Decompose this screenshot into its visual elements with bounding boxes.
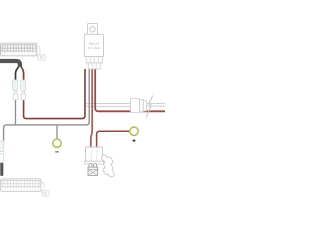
svg-text:12V 40A: 12V 40A [88, 46, 101, 50]
